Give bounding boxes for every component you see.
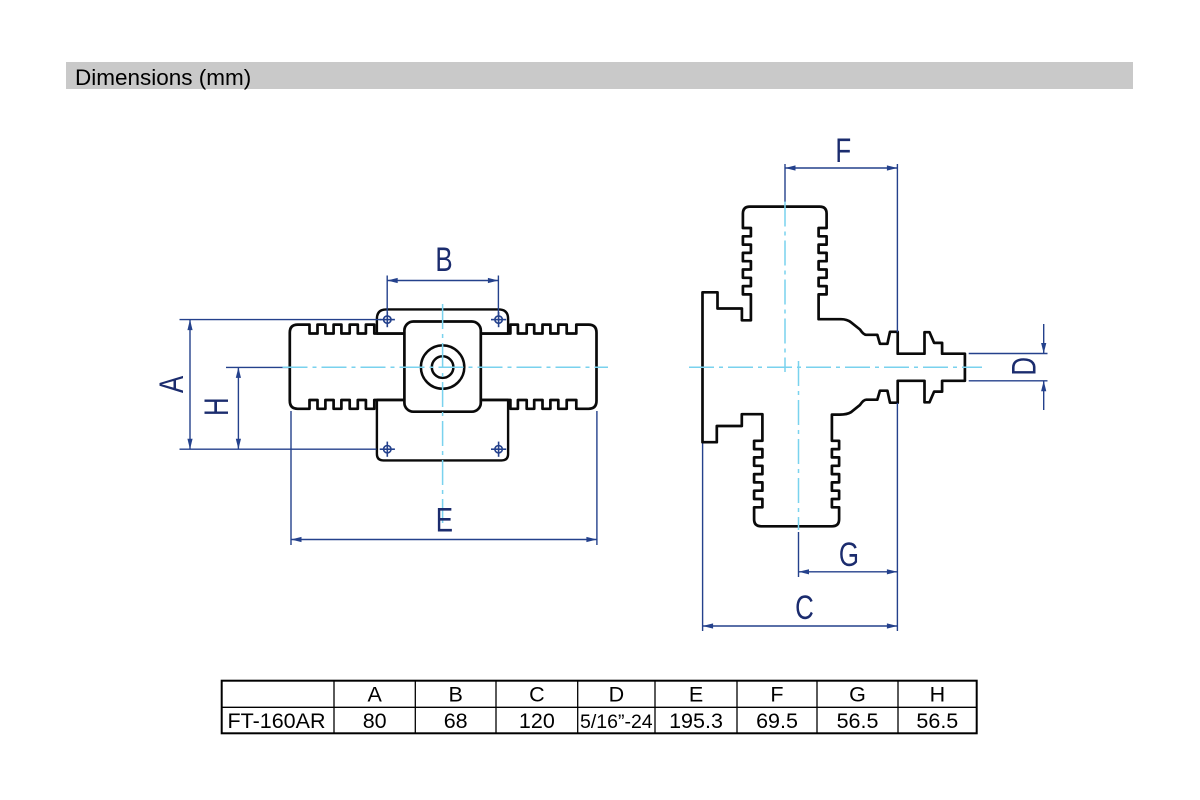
svg-text:E: E: [689, 683, 703, 707]
svg-text:E: E: [436, 502, 453, 539]
svg-text:56.5: 56.5: [837, 709, 879, 733]
svg-text:56.5: 56.5: [916, 709, 958, 733]
svg-text:120: 120: [519, 709, 555, 733]
svg-text:C: C: [795, 590, 814, 627]
svg-text:H: H: [199, 397, 236, 416]
svg-text:A: A: [154, 375, 191, 393]
svg-text:80: 80: [363, 709, 387, 733]
svg-text:69.5: 69.5: [756, 709, 798, 733]
svg-text:B: B: [448, 683, 462, 707]
svg-text:G: G: [849, 683, 866, 707]
svg-text:195.3: 195.3: [669, 709, 723, 733]
svg-text:A: A: [367, 683, 382, 707]
svg-text:F: F: [770, 683, 783, 707]
svg-text:5/16”-24: 5/16”-24: [580, 711, 653, 733]
svg-text:B: B: [435, 242, 452, 279]
svg-text:D: D: [609, 683, 625, 707]
svg-text:H: H: [930, 683, 946, 707]
svg-text:D: D: [1006, 357, 1043, 376]
svg-text:C: C: [529, 683, 545, 707]
svg-text:G: G: [839, 537, 859, 574]
svg-text:FT-160AR: FT-160AR: [228, 709, 326, 733]
svg-text:F: F: [835, 133, 851, 170]
svg-text:68: 68: [444, 709, 468, 733]
